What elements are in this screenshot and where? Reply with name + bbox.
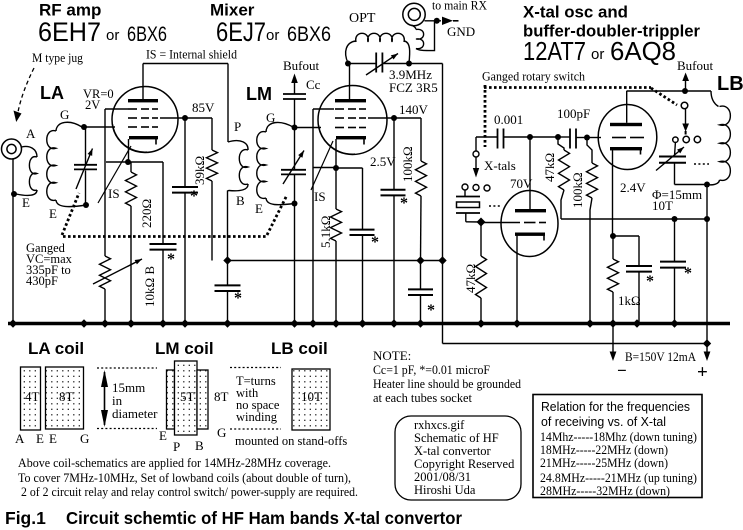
coil T2 OPT primary — [346, 41, 356, 63]
trimmer CT1 across OPT — [348, 63, 376, 65]
potentiometer VR1 10k B — [100, 256, 111, 289]
svg-text:2.5V: 2.5V — [370, 154, 396, 169]
wire plate V1 to LM primary — [143, 63, 228, 65]
svg-text:diameter: diameter — [112, 406, 158, 421]
svg-text:2V: 2V — [85, 98, 100, 112]
wire LB bottom to B+ — [706, 185, 708, 344]
svg-text:mounted on stand-offs: mounted on stand-offs — [235, 434, 347, 448]
tube V1 RF amp envelope — [112, 87, 178, 153]
callout dashed arrow to jug — [18, 68, 34, 112]
resistor R4 100k screen mixer — [394, 117, 421, 119]
svg-text:To cover 7MHz-10MHz, Set of lo: To cover 7MHz-10MHz, Set of lowband coil… — [18, 470, 351, 485]
resistor R6 47k osc plate load — [558, 137, 564, 150]
svg-text:of receiving vs. of X-tal: of receiving vs. of X-tal — [541, 414, 666, 429]
node J2 hot — [425, 20, 442, 22]
label IS callout V2 — [311, 141, 333, 190]
bus junction — [477, 319, 485, 327]
wire suppressor tie V2 — [313, 108, 334, 110]
svg-text:10kΩ B: 10kΩ B — [142, 266, 157, 307]
svg-text:FCZ 3R5: FCZ 3R5 — [389, 80, 438, 95]
svg-text:G: G — [80, 431, 89, 446]
resistor R7 100k buffer grid — [587, 138, 592, 164]
tube V3a grid — [524, 222, 536, 224]
svg-text:rxhxcs.gif: rxhxcs.gif — [414, 418, 465, 432]
svg-text:5T: 5T — [180, 389, 195, 404]
svg-text:or: or — [266, 27, 279, 44]
capacitor C3 cathode bypass mixer — [336, 167, 363, 169]
svg-text:X-tal osc and: X-tal osc and — [523, 4, 628, 22]
tube V1 cathode — [129, 136, 158, 139]
switch contacts row — [673, 137, 678, 142]
wire G2 to mixer grid — [295, 127, 322, 129]
svg-text:IS = Internal shield: IS = Internal shield — [146, 47, 237, 62]
svg-text:GND: GND — [447, 24, 475, 39]
svg-text:14Mhz-----18Mhz (down tuning): 14Mhz-----18Mhz (down tuning) — [540, 430, 697, 444]
resistor R5 47k grid leak — [480, 222, 482, 256]
svg-text:8T: 8T — [59, 389, 74, 404]
resistor R3 5.1k cathode — [335, 168, 337, 209]
LB coil winding 10T — [292, 369, 330, 430]
svg-text:Cc=1 pF, *=0.01 microF: Cc=1 pF, *=0.01 microF — [373, 362, 490, 377]
svg-text:LB: LB — [717, 73, 743, 95]
svg-text:Copyright Reserved: Copyright Reserved — [414, 457, 515, 471]
svg-text:Above coil-schematics are appl: Above coil-schematics are applied for 14… — [18, 455, 331, 470]
node B4 — [672, 216, 678, 222]
svg-text:2001/08/31: 2001/08/31 — [414, 470, 471, 484]
node X1 — [527, 134, 533, 140]
svg-text:IS: IS — [314, 189, 326, 204]
wire cathode V2 — [335, 139, 337, 168]
svg-text:430pF: 430pF — [26, 274, 58, 288]
arrow to main RX — [442, 17, 453, 25]
bus junction — [332, 319, 340, 327]
node G2 — [292, 125, 298, 131]
node K1 — [125, 159, 131, 165]
variable capacitor VC1 — [85, 128, 87, 165]
capacitor C6 B+ bypass right — [420, 261, 422, 290]
svg-text:6EH7: 6EH7 — [38, 17, 101, 47]
svg-text:IS: IS — [108, 186, 120, 201]
tube V3a cathode — [515, 233, 545, 236]
svg-text:5.1kΩ: 5.1kΩ — [318, 216, 333, 248]
resistor R8 1k cathode buffer — [612, 236, 614, 259]
trimmer CT2 LB tank — [659, 156, 686, 158]
tube V2 cathode — [336, 136, 366, 139]
capacitor C5 B+ bypass left — [227, 261, 229, 286]
svg-text:at each tubes socket: at each tubes socket — [373, 390, 472, 405]
svg-text:G: G — [266, 110, 275, 125]
svg-text:70V: 70V — [510, 176, 533, 191]
svg-text:Heater line should be grounded: Heater line should be grounded — [373, 376, 521, 391]
svg-text:Bufout: Bufout — [677, 58, 714, 73]
svg-text:10T: 10T — [301, 389, 322, 404]
tube V2 mixer envelope — [318, 86, 387, 155]
svg-text:6BX6: 6BX6 — [287, 23, 331, 46]
svg-text:LA coil: LA coil — [28, 339, 84, 358]
svg-text:*: * — [684, 265, 692, 282]
svg-text:E: E — [36, 431, 44, 446]
node G1 — [81, 124, 87, 130]
bus junction — [586, 319, 594, 327]
bus junction — [181, 319, 189, 327]
svg-text:G: G — [60, 107, 69, 122]
tube V3b cathode — [610, 147, 642, 150]
selector contacts — [462, 184, 468, 190]
svg-text:100kΩ: 100kΩ — [570, 172, 585, 208]
svg-text:A: A — [15, 431, 25, 446]
svg-text:OPT: OPT — [349, 11, 376, 26]
node SW1 — [682, 88, 688, 94]
wire B+ rail y260 — [228, 260, 443, 262]
node B2 — [416, 256, 424, 264]
wire to 47k — [530, 136, 558, 138]
svg-text:G: G — [217, 425, 226, 440]
svg-text:*: * — [167, 251, 175, 268]
bus junction — [390, 319, 398, 327]
capacitor VC2 variable — [294, 129, 296, 169]
svg-text:0.001: 0.001 — [494, 112, 523, 127]
svg-text:X-tal convertor: X-tal convertor — [414, 444, 492, 458]
svg-text:E: E — [159, 428, 167, 443]
svg-text:X-tals: X-tals — [484, 158, 516, 173]
tube V1 grids — [128, 108, 137, 110]
node X2 — [555, 134, 561, 140]
node B5 — [704, 216, 710, 222]
dots gang to coil — [694, 163, 709, 165]
svg-text:100pF: 100pF — [557, 106, 590, 121]
node B7 — [703, 339, 711, 347]
svg-text:47kΩ: 47kΩ — [542, 153, 557, 182]
svg-text:M type jug: M type jug — [32, 50, 83, 65]
node screen V2 140V — [368, 117, 394, 119]
svg-text:*: * — [190, 188, 198, 205]
box frequency relation table — [533, 395, 702, 498]
node E3 — [292, 201, 298, 207]
bus junction — [633, 319, 641, 327]
wire suppressor tie V1 — [105, 108, 128, 110]
svg-text:*: * — [371, 234, 379, 251]
svg-text:LM: LM — [246, 84, 272, 104]
node B1 — [223, 256, 231, 264]
node P1 — [345, 61, 351, 67]
connector J2 to main RX jug — [403, 3, 425, 25]
svg-text:Bufout: Bufout — [283, 58, 320, 73]
svg-text:to main RX: to main RX — [432, 0, 488, 13]
svg-text:A: A — [26, 126, 36, 141]
svg-text:21MHz-----25MHz (down): 21MHz-----25MHz (down) — [540, 456, 668, 470]
capacitor C4 screen bypass mixer — [393, 118, 395, 189]
crystal selector terminal — [475, 137, 477, 151]
bus junction — [127, 319, 135, 327]
LM coil winding right — [197, 370, 208, 429]
node B3 — [438, 256, 446, 264]
dotted gang switch lines — [484, 85, 487, 147]
capacitor C10 B+ bypass osc — [674, 219, 676, 261]
node E1 — [11, 191, 17, 197]
svg-text:6EJ7: 6EJ7 — [216, 17, 266, 47]
svg-text:28MHz-----32MHz (down): 28MHz-----32MHz (down) — [540, 484, 670, 498]
LM coil winding left — [167, 370, 175, 429]
LA coil winding 8T — [46, 367, 84, 429]
svg-text:2 of 2 circuit relay and relay: 2 of 2 circuit relay and relay control s… — [21, 484, 358, 499]
svg-text:2.4V: 2.4V — [620, 180, 646, 195]
LM coil winding 5T — [175, 361, 198, 435]
node P2 — [406, 61, 412, 67]
node K2 — [333, 165, 339, 171]
svg-text:NOTE:: NOTE: — [373, 348, 411, 363]
bus junction — [670, 319, 678, 327]
svg-text:LA: LA — [40, 83, 64, 103]
svg-text:140V: 140V — [399, 102, 429, 117]
bus junction — [609, 319, 617, 327]
ground bus — [8, 322, 730, 325]
node E2 — [83, 202, 89, 208]
tube V3a plate — [515, 209, 546, 212]
coil L1a antenna link — [22, 146, 38, 157]
tube V1 plate — [128, 99, 158, 102]
bus junction — [159, 319, 167, 327]
svg-text:Circuit schemtic of HF Ham ba: Circuit schemtic of HF Ham bands X-tal c… — [66, 508, 462, 528]
node B6 — [704, 182, 710, 188]
wire grid osc — [481, 222, 520, 224]
svg-text:*: * — [427, 302, 435, 319]
svg-text:B=150V 12mA: B=150V 12mA — [625, 349, 697, 364]
node screen V1 85V — [160, 117, 185, 119]
svg-text:18MHz-----22MHz (down): 18MHz-----22MHz (down) — [540, 443, 668, 457]
tube V2 grids — [335, 108, 344, 110]
svg-text:*: * — [234, 290, 242, 307]
ganged link VC dotted — [63, 235, 268, 238]
svg-text:24.8MHz-----21MHz (up tuning): 24.8MHz-----21MHz (up tuning) — [540, 471, 697, 485]
resistor R2 39k screen dropper — [185, 117, 212, 119]
wire OPT to B+ rail — [409, 63, 443, 65]
svg-text:85V: 85V — [192, 100, 215, 115]
svg-text:or: or — [106, 27, 119, 44]
wire jug ground — [12, 160, 14, 323]
T=turns note — [230, 367, 281, 369]
coil T2 OPT secondary link — [412, 25, 417, 30]
svg-text:6BX6: 6BX6 — [127, 23, 167, 46]
terminal minus — [612, 325, 614, 352]
svg-text:E: E — [49, 206, 57, 221]
wire buffer plate to switch — [627, 90, 712, 92]
arrow bufout up — [682, 73, 689, 82]
tube V3b grid — [612, 137, 626, 139]
bus junction — [309, 319, 317, 327]
node G3 — [477, 218, 486, 227]
node K3 — [610, 233, 616, 239]
svg-text:winding: winding — [236, 410, 278, 424]
svg-text:Fig.1: Fig.1 — [5, 508, 46, 528]
svg-text:LM coil: LM coil — [155, 339, 214, 358]
svg-text:100kΩ: 100kΩ — [400, 146, 415, 182]
label IS internal shield callout V1 — [98, 146, 131, 203]
resistor R1 220ohm cathode — [130, 162, 132, 172]
bus junction — [358, 319, 366, 327]
svg-text:E: E — [255, 201, 263, 216]
svg-text:E: E — [49, 431, 57, 446]
bus junction — [101, 319, 109, 327]
bus junction — [290, 319, 298, 327]
svg-text:4T: 4T — [25, 389, 40, 404]
capacitor C1 cathode bypass — [128, 161, 163, 163]
svg-text:LB coil: LB coil — [271, 339, 328, 358]
svg-text:Schematic of HF: Schematic of HF — [414, 431, 499, 445]
svg-text:8T: 8T — [214, 389, 229, 404]
bus junction — [416, 319, 424, 327]
crystal Y1 — [464, 191, 466, 197]
tube V3b buffer envelope — [598, 105, 657, 170]
svg-text:P: P — [234, 119, 241, 134]
LA coil winding 4T — [21, 367, 41, 430]
dots more crystals — [489, 205, 501, 207]
svg-text:B: B — [236, 193, 245, 208]
coil T1 secondary — [266, 122, 294, 132]
capacitor C2 screen bypass — [184, 118, 186, 186]
switch contact top — [681, 102, 688, 109]
svg-text:Relation for the frequencies: Relation for the frequencies — [541, 399, 690, 414]
wire B+ return bottom — [443, 343, 708, 345]
svg-text:B: B — [195, 438, 204, 453]
tube V3b plate — [610, 123, 642, 126]
bus junction — [9, 319, 17, 327]
svg-text:+: + — [697, 362, 708, 383]
svg-text:220Ω: 220Ω — [139, 199, 154, 228]
bus junction — [223, 319, 231, 327]
svg-text:39kΩ: 39kΩ — [192, 156, 207, 185]
connector J1 M type jug — [2, 139, 22, 159]
terminal plus — [706, 344, 708, 352]
wire contact to trimmer — [674, 143, 677, 156]
svg-text:*: * — [646, 273, 654, 290]
svg-text:10T: 10T — [652, 198, 673, 213]
svg-text:or: or — [591, 46, 604, 63]
tube V3a osc envelope — [501, 191, 558, 257]
svg-text:6AQ8: 6AQ8 — [610, 36, 676, 66]
bus junction — [80, 319, 88, 327]
box credits rounded — [395, 416, 521, 500]
dimension arrow 15mm — [97, 367, 157, 369]
svg-text:47kΩ: 47kΩ — [463, 264, 478, 293]
wire G1 to grid — [84, 126, 115, 128]
wire cathode V1 — [128, 139, 130, 162]
svg-text:P: P — [173, 439, 180, 454]
svg-text:1kΩ: 1kΩ — [618, 293, 641, 308]
wire osc B+ rail y219 — [561, 218, 707, 220]
capacitor C9 cathode bypass buffer — [613, 235, 639, 237]
svg-text:Cc: Cc — [306, 77, 321, 92]
node X3 — [584, 135, 590, 141]
svg-text:12AT7: 12AT7 — [523, 36, 586, 66]
bus junction — [513, 319, 521, 327]
svg-text:*: * — [400, 195, 408, 212]
svg-text:E: E — [22, 195, 30, 210]
svg-text:Ganged rotary switch: Ganged rotary switch — [482, 69, 585, 84]
tube V2 plate — [335, 99, 366, 102]
coil L2 LB — [711, 91, 719, 107]
svg-text:Hiroshi Uda: Hiroshi Uda — [414, 483, 476, 497]
coil L1b LA secondary — [56, 122, 82, 131]
